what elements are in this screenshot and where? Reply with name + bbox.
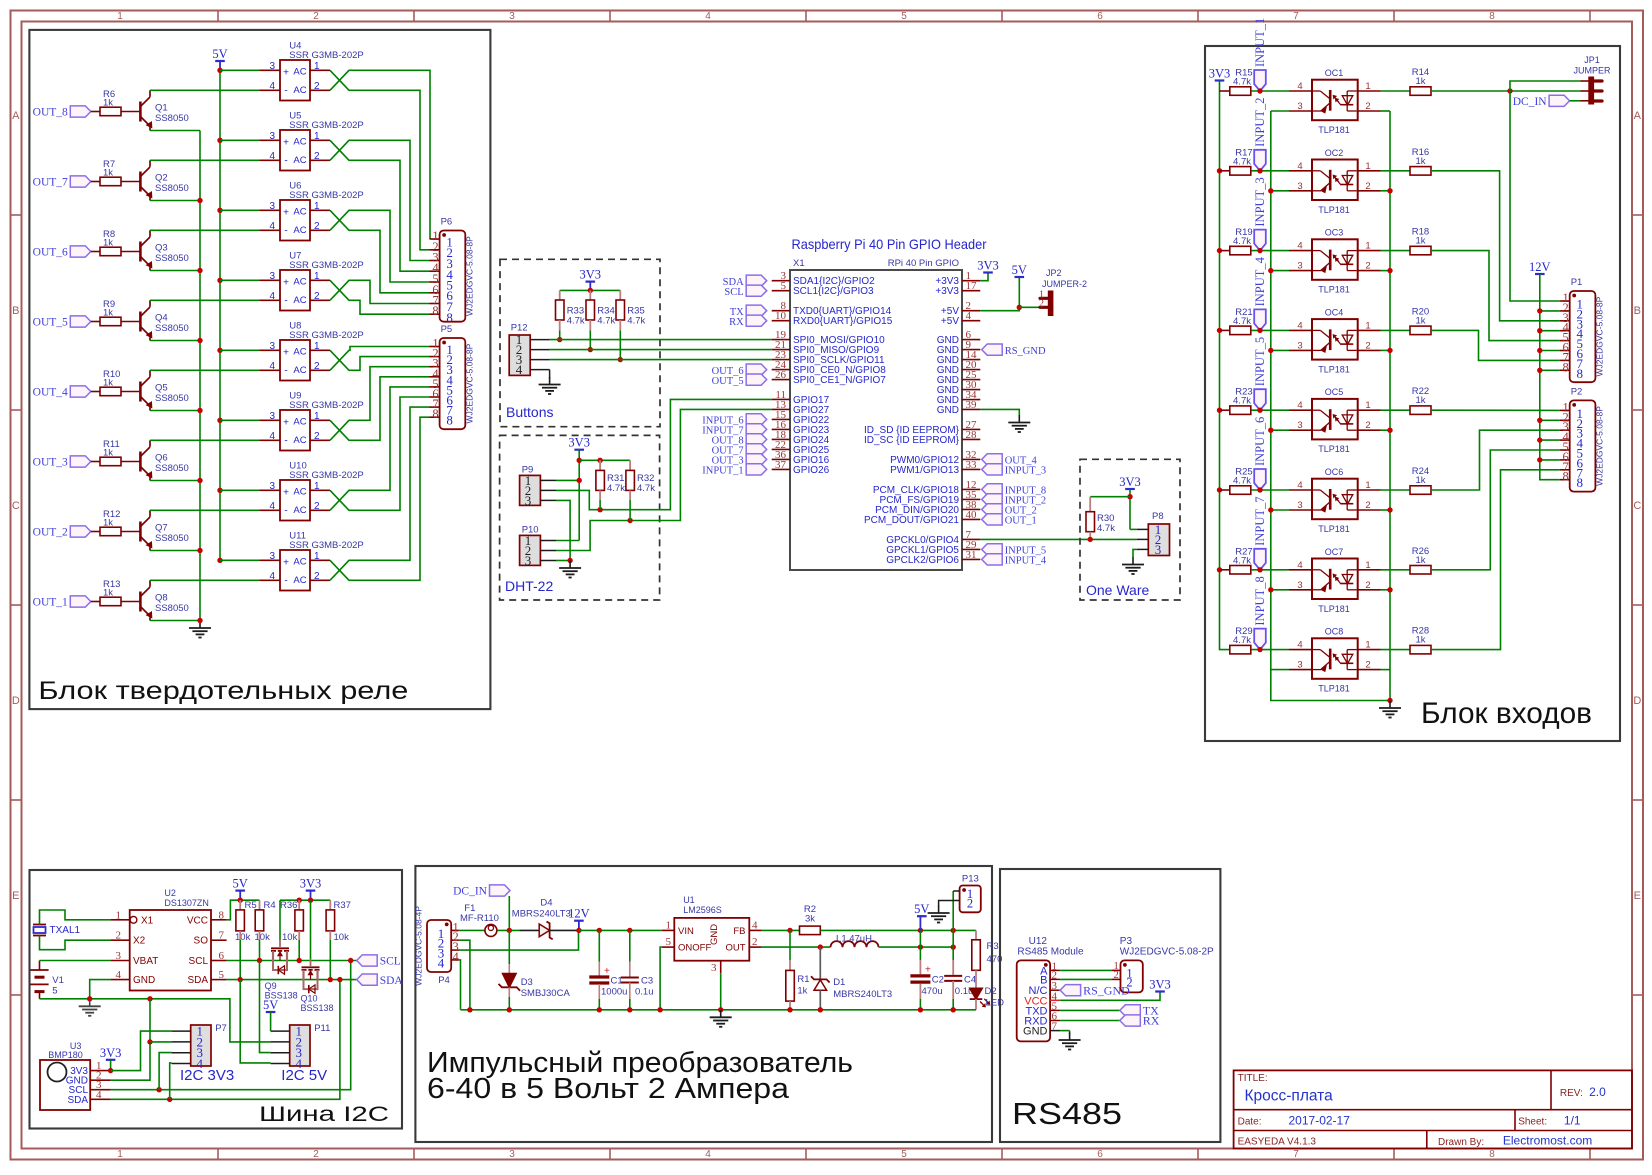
wire U5 pin2 crossover [330,140,430,260]
svg-text:TLP181: TLP181 [1318,364,1350,374]
svg-text:1k: 1k [103,448,113,459]
ground input block [1379,701,1401,718]
net flag TX at X1 [730,305,767,318]
svg-text:AC: AC [293,136,306,147]
svg-text:SSR G3MB-202P: SSR G3MB-202P [289,50,363,61]
SSR U10 G3MB-202P [260,461,364,521]
jumper JP2 JUMPER-2 [1039,268,1087,316]
net flag OUT_6 at X1 [712,364,767,377]
resistor R3 [972,930,1003,970]
net flag OUT_5 [33,316,91,329]
net flag TX [1120,1004,1159,1018]
wire 3V3 to R15 [1220,90,1230,92]
net flag INPUT_5 at X1 [982,544,1046,557]
svg-text:P4: P4 [438,975,450,986]
title block frame [1234,1070,1632,1148]
junction gnd bus [718,1007,723,1012]
X1 pin 27 ID_SD {ID EEPROM} [864,419,980,436]
svg-text:Q6: Q6 [155,453,168,464]
net flag OUT_2 at X1 [982,504,1037,517]
svg-text:AC: AC [293,505,306,516]
ground p13 [928,906,950,923]
svg-text:4: 4 [453,950,460,964]
svg-text:GND: GND [709,924,720,945]
svg-text:4: 4 [269,291,275,302]
resistor R1 [786,930,810,1009]
IC U1 LM2596S [662,895,762,974]
net flag OUT_2 [33,526,91,539]
junction R32 bottom [627,518,632,523]
wire 3V3 rail i2c [280,900,330,910]
wire R20 to P1 pin7 [1431,330,1560,360]
wire bmp SCL [111,961,351,1090]
svg-text:1k: 1k [1415,475,1425,486]
junction R34 bottom [588,347,593,352]
net flag INPUT_5 [1253,337,1267,410]
net flag INPUT_6 [1253,417,1267,490]
junction 12V node [576,928,581,933]
svg-text:5: 5 [901,1149,907,1160]
optocoupler OC5 TLP181 [1289,387,1381,454]
junction SCL [348,958,353,963]
svg-text:AC: AC [293,276,306,287]
junction emitter bus row 6 [197,478,202,483]
resistor R7 [100,159,121,186]
svg-text:1k: 1k [103,378,113,389]
svg-text:C: C [12,500,20,512]
svg-text:OUT_4: OUT_4 [33,387,68,399]
wire OC6 pin3 to bus [1271,509,1289,511]
svg-text:GND: GND [133,975,155,986]
svg-text:TITLE:: TITLE: [1238,1073,1268,1084]
svg-text:3V3: 3V3 [977,259,999,273]
X1 pin 33 PWM1/GPIO13 [890,459,980,476]
net flag SCL [357,955,401,968]
svg-text:3: 3 [1297,500,1302,511]
wire collector Q5 [150,369,260,371]
wire crystal to X1 [40,910,111,925]
power 3V3 at X1 pin1 [977,259,999,281]
svg-text:+: + [283,417,289,428]
wire P4 pin4 gnd [459,960,461,1010]
svg-text:4.7k: 4.7k [1233,396,1251,407]
svg-text:3V3: 3V3 [300,877,322,891]
svg-text:RS485: RS485 [1012,1096,1122,1131]
wire P7 pin4 [170,1063,172,1099]
svg-text:8: 8 [1576,366,1583,381]
drawnby text [1438,1134,1592,1149]
X1 pin 14 GND [937,349,981,366]
wire 5V to U5 pin3 [220,139,260,141]
wire R36 bottom [298,931,300,961]
svg-text:28: 28 [966,429,978,441]
svg-text:4: 4 [516,362,523,377]
wire OUT_1 to R13 [91,601,100,603]
svg-text:5V: 5V [212,47,227,61]
svg-text:7: 7 [1293,1149,1299,1160]
svg-text:WJ2EDGVC-5.08-8P: WJ2EDGVC-5.08-8P [1595,406,1605,486]
resistor R17 [1230,147,1253,175]
wire OUT node [762,946,831,948]
wire collector Q2 [150,159,260,161]
junction pin2 bus row 7 [1387,587,1392,592]
SSR U6 G3MB-202P [260,181,364,241]
svg-text:SS8050: SS8050 [155,183,189,194]
resistor R34 [586,290,616,330]
caption I2C 3V3 [180,1067,234,1084]
svg-text:SSR G3MB-202P: SSR G3MB-202P [289,400,363,411]
ground converter [710,1010,732,1027]
caption One Ware [1086,582,1149,598]
wire U6 pin2 crossover [330,210,430,282]
net flag RS_GND rs485 [1060,983,1130,997]
wire OUT_6 to R8 [91,251,100,253]
power 3V3 buttons [580,268,602,282]
net flag SDA at X1 [723,275,767,288]
svg-text:2: 2 [313,11,319,22]
junction 5V rail [238,898,243,903]
junction C4 col top [951,928,956,933]
caption I2C 5V [281,1067,327,1084]
net flag RS_GND at X1 [982,344,1046,357]
wire opto pin3 bus [1271,111,1390,701]
wire R23 to OC5 [1251,409,1289,411]
resistor R18 [1410,227,1431,255]
svg-text:1k: 1k [797,986,807,997]
svg-text:SS8050: SS8050 [155,113,189,124]
junction R30 bottom [1088,537,1093,542]
wire 5V to U11 pin3 [220,559,260,561]
svg-text:5: 5 [901,11,907,22]
wire OUT_8 to R6 [91,111,100,113]
junction INPUT_7 [1257,567,1262,572]
svg-text:4: 4 [269,221,275,232]
svg-text:3: 3 [269,201,275,212]
wire 3V3 to R25 [1220,489,1230,491]
net flag OUT_6 [33,246,91,259]
junction 5V bus row 5 [217,348,222,353]
wire OUT_3 to R11 [91,461,100,463]
net flag INPUT_2 [1253,97,1267,170]
wire TXD [1060,1009,1120,1011]
svg-text:GND: GND [937,405,959,416]
svg-text:5: 5 [666,936,672,948]
wire DC_IN drop [508,896,510,930]
svg-text:4: 4 [116,969,122,981]
jumper JP1 [1573,55,1611,104]
svg-text:I2C 5V: I2C 5V [281,1067,327,1084]
wire OC4 pin1 to R20 [1381,329,1410,331]
led D2 [970,970,1004,1010]
svg-text:2: 2 [314,81,320,92]
svg-text:1: 1 [314,481,320,492]
svg-text:1k: 1k [1415,315,1425,326]
svg-text:VIN: VIN [678,926,694,937]
wire R24 to P2 pin3 [1431,430,1560,490]
svg-text:3: 3 [269,271,275,282]
svg-text:1: 1 [314,411,320,422]
X1 pin 1 +3V3 [935,270,980,287]
X1 pin 26 SPI0_CE1_N/GPIO7 [772,369,887,386]
svg-text:OUT_5: OUT_5 [33,317,68,329]
wire F1 out [497,929,520,931]
wire emitter Q6 [150,480,200,482]
svg-text:DS1307ZN: DS1307ZN [164,898,209,908]
svg-text:1k: 1k [1415,76,1425,87]
svg-text:4.7k: 4.7k [597,316,615,327]
resistor R4 [255,900,276,943]
svg-text:4: 4 [269,151,275,162]
svg-text:INPUT_3: INPUT_3 [1253,177,1267,226]
net flag INPUT_1 at X1 [702,464,766,477]
svg-text:DC_IN: DC_IN [1513,96,1548,108]
resistor R20 [1410,306,1431,334]
X1 pin 7 GPCKL0/GPIO4 [886,529,980,546]
svg-text:3: 3 [1297,181,1302,192]
svg-text:4.7k: 4.7k [607,483,625,494]
svg-text:1k: 1k [1415,395,1425,406]
svg-text:U2: U2 [164,888,176,898]
X1 pin 28 ID_SC {ID EEPROM} [864,429,980,446]
junction 5V bus row 7 [217,488,222,493]
svg-text:AC: AC [293,225,306,236]
svg-text:3: 3 [525,493,532,508]
svg-text:4: 4 [752,920,758,932]
svg-text:+3V3: +3V3 [935,286,959,297]
svg-text:OUT_7: OUT_7 [33,177,68,189]
net flag DC_IN conv [453,885,510,898]
capacitor C2 470u [910,930,944,1009]
svg-text:8: 8 [219,909,225,921]
wire R18 to P1 pin5 [1431,251,1560,341]
svg-text:AC: AC [293,295,306,306]
svg-text:1: 1 [314,61,320,72]
wire R2 to R3 [820,929,976,931]
net flag INPUT_4 [1253,256,1267,330]
junction 3V3 bus row 7 [1217,567,1222,572]
wire emitter Q4 [150,340,200,342]
wire opto pin2 bus [1389,111,1391,701]
svg-text:Sheet:: Sheet: [1518,1117,1547,1128]
wire P12 pin1 to X1 [550,339,772,341]
junction gnd bus [818,1007,823,1012]
svg-text:4: 4 [269,571,275,582]
svg-text:10k: 10k [255,932,271,943]
svg-text:SS8050: SS8050 [155,393,189,404]
wire bmp 3V3 to P7 pin1 [111,1031,172,1071]
wire OC1 pin1 to R14 [1381,90,1410,92]
junction P7 pin2 tap [147,1039,152,1044]
svg-text:5V: 5V [1012,263,1027,277]
svg-text:GPCLK2/GPIO6: GPCLK2/GPIO6 [886,555,959,566]
wire 5V to U6 pin3 [220,209,260,211]
junction R35 bottom [618,357,623,362]
wire RXD [1060,1020,1120,1022]
wire OC3 pin3 to bus [1271,270,1289,272]
svg-text:P13: P13 [962,874,979,885]
svg-text:10k: 10k [334,932,350,943]
optocoupler OC8 TLP181 [1289,627,1381,694]
svg-text:GND: GND [1023,1026,1048,1038]
svg-text:2: 2 [1365,580,1370,591]
capacitor C4 0.1u [944,891,976,1010]
net flag RX [1120,1014,1160,1028]
resistor R16 [1410,147,1431,175]
svg-text:8: 8 [1489,1149,1495,1160]
junction 5V bus row 6 [217,418,222,423]
resistor R9 [100,299,121,326]
svg-text:3: 3 [269,411,275,422]
svg-text:X2: X2 [133,936,146,947]
wire R28 to P2 pin7 [1431,470,1560,650]
svg-text:3: 3 [1297,660,1302,671]
connector P10 [520,525,556,569]
svg-text:+: + [604,966,610,977]
date text [1238,1114,1351,1128]
junction 3V3 bus row 5 [1217,408,1222,413]
connector P13 [946,874,981,913]
svg-text:BMP180: BMP180 [48,1050,83,1060]
wire R21 to OC4 [1251,329,1289,331]
svg-text:RX: RX [1143,1014,1160,1028]
svg-text:OC8: OC8 [1325,627,1344,637]
svg-text:37: 37 [775,459,787,471]
svg-text:RXD0{UART}/GPIO15: RXD0{UART}/GPIO15 [793,316,893,327]
svg-text:TLP181: TLP181 [1318,444,1350,454]
X1 pin 2 +5V [941,300,980,317]
wire i2c gnd bus [40,999,271,1042]
caption: Блок входов [1421,697,1592,730]
svg-text:-: - [284,505,287,516]
junction emitter bus row 7 [197,548,202,553]
svg-text:8: 8 [1562,360,1568,374]
wire VCC to 5V rail [227,900,260,920]
svg-text:JUMPER-2: JUMPER-2 [1042,279,1087,289]
IC U2 DS1307ZN [111,888,227,991]
power 5V p11 [263,998,278,1012]
svg-text:D3: D3 [521,977,533,988]
svg-text:P8: P8 [1152,511,1164,522]
svg-text:6: 6 [1097,1149,1103,1160]
junction pin3 bus row 7 [1268,587,1273,592]
power 12V bus [1529,260,1560,480]
X1 pin 5 SCL1{I2C}/GPIO3 [772,280,874,297]
wire input node [579,929,662,931]
wire 3V3 stem ow [1129,489,1131,529]
junction pin2 bus row 5 [1387,428,1392,433]
svg-text:2: 2 [1365,340,1370,351]
svg-text:D: D [12,695,20,707]
X1 pin 13 GPIO27 [772,399,830,416]
svg-text:3: 3 [509,11,515,22]
junction C2 col top [918,928,923,933]
net flag OUT_7 at X1 [712,444,767,457]
svg-text:SSR G3MB-202P: SSR G3MB-202P [289,470,363,481]
wire crystal to X2 [40,936,111,950]
svg-text:4: 4 [705,1149,711,1160]
wire P10 pin3 gnd [556,560,570,562]
X1 pin 6 GND [937,329,981,346]
svg-text:SS8050: SS8050 [155,533,189,544]
svg-text:1: 1 [1365,320,1370,331]
svg-text:Q5: Q5 [155,383,168,394]
caption: Импульсный преобразователь [427,1047,853,1079]
wire U2 GND [90,980,111,999]
svg-text:2: 2 [314,501,320,512]
svg-text:LED: LED [986,998,1005,1009]
svg-text:AC: AC [293,486,306,497]
power 3V3 dht [568,436,590,450]
svg-text:-: - [284,225,287,236]
svg-text:VBAT: VBAT [133,956,158,967]
junction 3V3 rail a [297,898,302,903]
svg-text:3: 3 [1297,101,1302,112]
junction SCL [257,958,262,963]
svg-text:1k: 1k [103,518,113,529]
wire U5 pin1 crossover [330,140,430,271]
junction 12V P1 pin2 [1537,308,1542,313]
transistor Q5 [121,370,189,410]
IC X1 RPi 40 Pin GPIO [790,258,962,570]
svg-text:SSR G3MB-202P: SSR G3MB-202P [289,120,363,131]
junction R33 bottom [557,337,562,342]
caption: Шина I2C [259,1103,389,1126]
junction INPUT_6 [1257,487,1262,492]
svg-text:3: 3 [1297,261,1302,272]
junction pin3 bus row 5 [1268,428,1273,433]
sheet text [1518,1114,1581,1128]
wire bmp SDA [111,980,340,1100]
svg-text:2: 2 [1365,420,1370,431]
svg-text:2: 2 [314,571,320,582]
svg-text:4: 4 [1297,241,1302,252]
junction INPUT_2 [1257,168,1262,173]
svg-text:P2: P2 [1571,386,1583,397]
svg-text:17: 17 [966,280,978,292]
wire P12 pin4 gnd [549,370,551,379]
svg-text:INPUT_6: INPUT_6 [1253,417,1267,466]
X1 pin 20 GND [937,359,981,376]
svg-text:SS8050: SS8050 [155,463,189,474]
svg-text:2: 2 [967,897,973,911]
svg-text:AC: AC [293,416,306,427]
resistor R35 [616,290,646,330]
wire U11 pin1 crossover [330,417,430,580]
wire collector Q3 [150,229,260,231]
svg-text:Q1: Q1 [155,103,168,114]
svg-text:D2: D2 [985,986,997,997]
resistor R12 [100,509,121,536]
wire output node [879,946,954,948]
svg-text:3V3: 3V3 [1149,978,1171,992]
svg-text:INPUT_4: INPUT_4 [1253,256,1267,306]
svg-text:12V: 12V [568,907,590,921]
svg-text:1: 1 [1365,161,1370,172]
ground one ware [1122,557,1144,574]
svg-text:INPUT_1: INPUT_1 [702,466,743,477]
module U12 RS485 [1017,936,1084,1041]
resistor R14 [1410,67,1431,95]
svg-text:WJ2EDGVC-5.08-4P: WJ2EDGVC-5.08-4P [414,906,424,986]
svg-text:OC7: OC7 [1325,547,1344,557]
svg-text:-: - [284,295,287,306]
power 5V relay bus [212,47,227,560]
svg-text:1k: 1k [103,588,113,599]
svg-text:RS_GND: RS_GND [1083,983,1130,997]
svg-text:+: + [283,137,289,148]
resistor R2 [800,904,821,935]
svg-text:1k: 1k [1415,156,1425,167]
